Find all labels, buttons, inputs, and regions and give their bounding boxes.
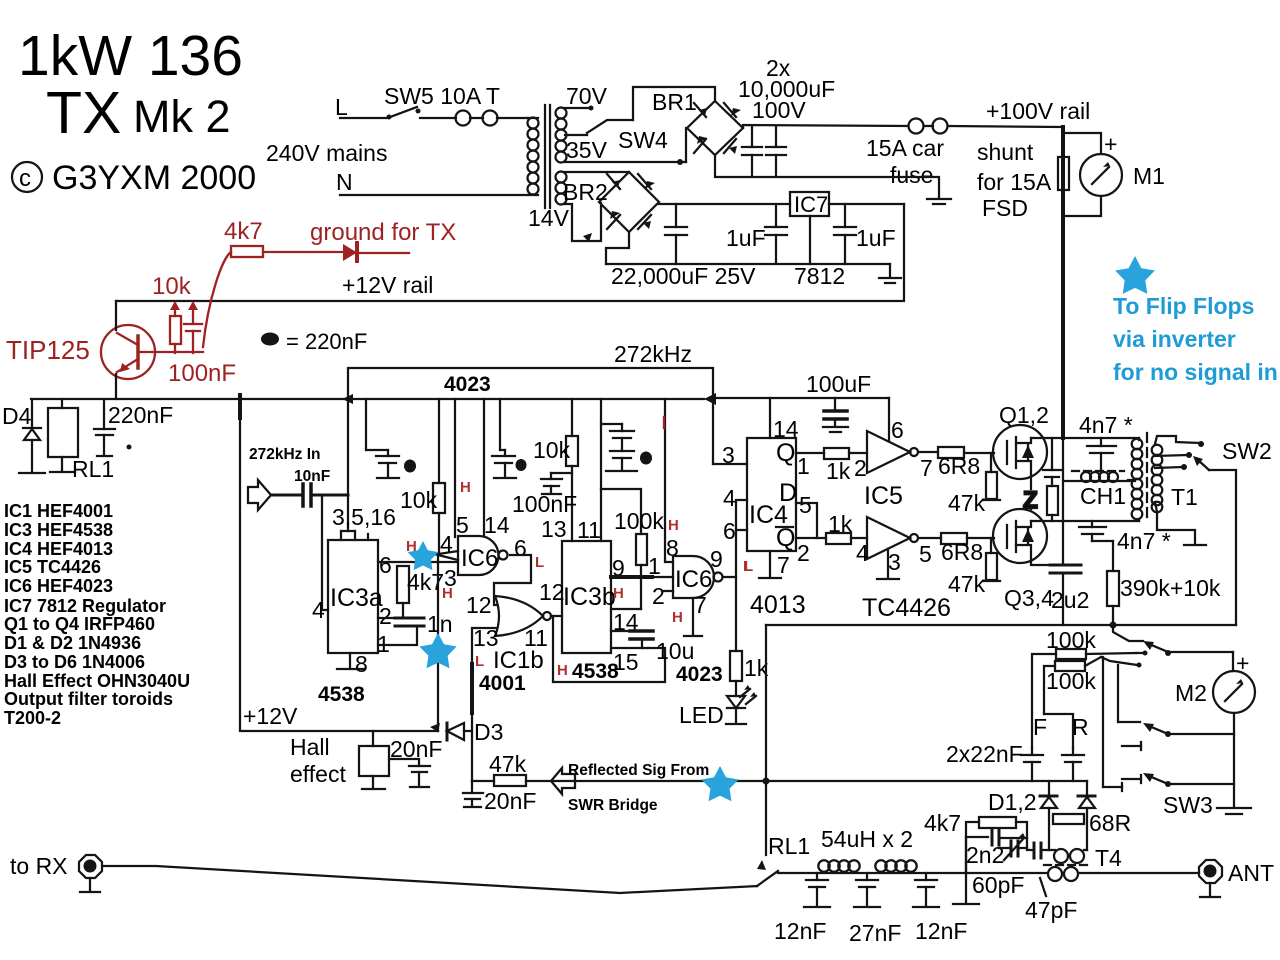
star cyan 1 [408,541,439,570]
svg-text:7812: 7812 [794,263,845,289]
red tick on pin8 line [663,417,665,428]
svg-text:3: 3 [722,442,735,468]
thick junction mark on bus [238,395,242,418]
IC4 top rail [715,397,889,399]
wire 6R8 to Q1 gate [964,452,994,454]
svg-text:5: 5 [799,492,812,518]
wire hall to 20nF [389,759,419,766]
svg-text:100uF: 100uF [806,371,871,397]
svg-text:H: H [460,479,471,496]
svg-text:+100V rail: +100V rail [986,98,1090,124]
wire IC3a pin6 to IC6 input [378,561,458,563]
svg-text:1: 1 [797,453,810,479]
svg-text:IC6: IC6 [461,545,498,572]
wire pin2 into IC6b [662,590,673,592]
switch SW3 bank1 [1101,625,1233,668]
svg-text:100V: 100V [752,97,806,123]
wire IC3b pin9 to IC6b (thick) [611,575,652,579]
svg-text:Q3,4: Q3,4 [1004,585,1054,611]
shunt resistor [1058,157,1069,190]
capacitor 10nF series [271,484,348,506]
wire IC3a pin1 to 1n [378,628,417,645]
svg-text:2: 2 [379,603,392,629]
svg-text:47k: 47k [948,571,986,597]
svg-text:L: L [744,558,753,575]
svg-text:1n: 1n [427,611,453,637]
bus left arrowhead [342,394,353,404]
svg-text:12: 12 [539,579,565,605]
wire 4k7 to red diode [263,251,343,253]
arrow tick on 14V return [583,233,592,242]
HV line between rails [1062,438,1064,521]
svg-text:SWR Bridge: SWR Bridge [568,797,658,814]
rx line [103,866,757,893]
wire IC1b output to IC3b pin12 [551,615,562,617]
svg-text:5: 5 [919,541,932,567]
svg-text:2: 2 [652,583,665,609]
connector ANT [1199,860,1222,897]
svg-text:+12V: +12V [243,703,298,729]
R column [1044,714,1073,748]
svg-text:5: 5 [456,512,469,538]
bus drop IC6b pin8 [665,399,673,562]
diode D1 [1040,781,1057,850]
resistor 10k osc2 [566,399,578,541]
meter M1 branch [1063,133,1122,216]
decoupling cap cluster B [492,399,516,478]
resistor 4k7 red [231,246,263,257]
transformer T1 core dashed [1146,433,1148,523]
wire Qbar out to 1k2 [796,537,826,539]
diode D3 [430,723,472,740]
wire N to transformer [340,194,527,196]
svg-text:fuse: fuse [890,162,933,188]
regulator IC7 box [790,192,829,216]
svg-text:Hall: Hall [290,734,330,760]
wire IC6b output up to IC4 pins 4,6 and down to 1k [723,500,747,577]
wire IC1b output loop down to pin15 [553,616,665,682]
wire junction down to D3 [437,555,439,731]
switch SW5 [387,107,457,120]
svg-text:272kHz In: 272kHz In [249,446,321,463]
svg-text:2n2: 2n2 [966,842,1004,868]
relay coil RL1 box [48,399,78,471]
svg-text:10k: 10k [400,487,438,513]
wire inverter1 out [918,451,938,453]
svg-text:+12V rail: +12V rail [342,272,433,298]
wire 35V bottom to BR1 left [565,161,686,163]
svg-text:100k: 100k [614,508,664,534]
wire pin13 column to 47k [471,713,473,781]
resistor 6R8 bottom [941,533,967,544]
svg-text:T4: T4 [1095,845,1122,871]
svg-text:12nF: 12nF [774,918,826,944]
hall sensor box [359,731,389,789]
svg-text:M2: M2 [1175,680,1207,706]
CH1 to T1 tap [1128,479,1134,481]
capacitor 47pF [1027,843,1048,896]
LED [727,681,756,723]
svg-text:effect: effect [290,761,346,787]
svg-text:D4: D4 [2,403,32,429]
svg-text:M1: M1 [1133,163,1165,189]
resistor 10k osc1 [433,399,445,555]
wire IC3a pin8 ground [337,653,364,669]
svg-text:T200-2: T200-2 [4,708,61,728]
capacitor 2u2 [1050,521,1081,625]
capacitor 2n2 [966,830,1027,873]
wire L to SW5 [340,117,388,119]
svg-text:D3 to D6 1N4006: D3 to D6 1N4006 [4,652,145,672]
svg-text:220nF: 220nF [108,402,173,428]
mosfet Q1,2 [993,425,1047,479]
svg-text:100k: 100k [1046,668,1096,694]
svg-text:54uH x 2: 54uH x 2 [821,826,913,852]
wire IC6a output S-path to IC1b [494,555,531,605]
T1 secondary tap top [1155,436,1204,447]
svg-text:47k: 47k [948,490,986,516]
svg-text:Mk 2: Mk 2 [133,91,231,142]
resistor 47k swr [472,775,766,786]
gate IC6 b [673,556,723,598]
IC3a box [328,531,378,653]
switch SW2 arm [1193,456,1236,625]
svg-text:2u2: 2u2 [1051,587,1089,613]
capacitor 4n7 bottom [1079,521,1113,541]
transformer T1 secondary [1152,445,1163,513]
svg-text:4: 4 [440,531,453,557]
svg-text:15A car: 15A car [866,135,944,161]
svg-text:2x22nF: 2x22nF [946,741,1023,767]
capacitor 22nF F [1021,748,1043,781]
wire +100V top rail [743,125,908,128]
capacitor 20nF hall [409,766,430,787]
resistor 68R [1053,814,1084,824]
transformer T4 [1044,849,1092,881]
svg-text:for no signal in: for no signal in [1113,359,1278,385]
resistor 1k LED [730,651,742,681]
star cyan 3 [701,766,738,801]
svg-text:ANT: ANT [1228,860,1274,886]
svg-text:To Flip Flops: To Flip Flops [1113,293,1254,319]
svg-text:CH1: CH1 [1080,483,1126,509]
transformer TR secondary 70V/35V winding [556,108,567,163]
wire TIP125 collector to +12V rail [115,301,117,330]
capacitor 27nF [854,873,880,907]
capacitor 10u [611,631,653,648]
svg-text:IC3 HEF4538: IC3 HEF4538 [4,520,113,540]
mosfet Q3,4 [993,509,1050,565]
connector to RX [79,855,102,892]
diode D2 [1078,781,1095,850]
drain rail bottom [1031,520,1139,522]
resistor 6R8 top [938,447,964,458]
svg-text:12: 12 [466,592,492,618]
wire 1k to inverter1 [849,452,867,454]
svg-text:SW4: SW4 [618,127,668,153]
svg-text:TIP125: TIP125 [6,335,90,365]
svg-text:RL1: RL1 [768,833,810,859]
svg-text:R: R [1072,714,1089,740]
svg-text:6R8: 6R8 [941,539,983,565]
capacitor 4n7 top [1087,438,1116,471]
legend dot = 220nF [261,333,279,346]
svg-text:IC3b: IC3b [563,583,616,611]
svg-text:3,5,16: 3,5,16 [332,504,396,530]
svg-text:H: H [557,662,568,679]
svg-text:27nF: 27nF [849,920,901,946]
bridge rectifier BR2 [599,172,659,232]
svg-text:Q1,2: Q1,2 [999,402,1049,428]
svg-text:4k7: 4k7 [924,810,961,836]
svg-text:9: 9 [710,546,723,572]
IC4 box [747,438,796,551]
svg-text:68R: 68R [1089,810,1131,836]
wire 35V tap [565,134,587,136]
svg-text:1uF: 1uF [726,225,766,251]
wire IC3a pin2 [378,617,403,619]
272kHz feedback line [348,368,713,464]
svg-text:for 15A: for 15A [977,169,1052,195]
svg-text:BR2: BR2 [563,179,608,205]
svg-text:Output filter toroids: Output filter toroids [4,689,173,709]
svg-text:1uF: 1uF [856,225,896,251]
parts list text [4,501,190,728]
transistor TIP125 [101,325,155,379]
HV feed line thick [1061,127,1065,438]
svg-text:14: 14 [484,512,510,538]
dot 220nF cluster C [640,452,652,465]
svg-text:47pF: 47pF [1025,897,1077,923]
svg-text:4n7 *: 4n7 * [1079,412,1133,438]
svg-text:10u: 10u [656,638,694,664]
bottom return rail y625 [766,624,1236,626]
wire BR1 left vertex down [685,128,687,162]
wire Q out to 1k [796,452,824,454]
svg-text:100nF: 100nF [168,360,236,387]
svg-text:390k+10k: 390k+10k [1120,575,1221,601]
svg-text:D3: D3 [474,719,503,745]
psu ground rail [606,263,890,265]
inductor 54uH b [875,860,916,871]
decoupling cap cluster A [366,399,399,478]
capacitor 220nF relay [94,399,115,456]
zener Z between mosfets [1023,476,1038,514]
svg-text:Hall Effect OHN3040U: Hall Effect OHN3040U [4,671,190,691]
svg-text:TX: TX [46,80,121,146]
bridge rectifier BR1 [687,101,743,155]
wire IC6b pin7 ground [684,598,702,636]
resistor 4k7 osc [397,566,409,618]
svg-text:T1: T1 [1171,484,1198,510]
ground D4 [19,472,45,474]
svg-text:L: L [535,554,544,571]
svg-text:Q: Q [776,524,795,552]
M2 bus vertical [1232,652,1234,671]
svg-text:IC4 HEF4013: IC4 HEF4013 [4,539,113,559]
wire BR2 bottom to psu ground rail [606,232,629,264]
dot 220nF cluster B [516,459,527,471]
wire 70V tap [565,106,594,111]
svg-text:IC7 7812 Regulator: IC7 7812 Regulator [4,596,166,616]
wire IC1b pin13 column [472,628,497,664]
svg-text:4538: 4538 [318,683,365,706]
svg-text:4023: 4023 [676,663,723,686]
svg-text:shunt: shunt [977,139,1034,165]
svg-text:IC1 HEF4001: IC1 HEF4001 [4,501,113,521]
svg-text:D1,2: D1,2 [988,789,1037,815]
svg-text:240V mains: 240V mains [266,140,387,166]
resistor 100k osc [636,534,647,609]
ground LED [726,723,746,725]
svg-text:IC7: IC7 [794,192,828,217]
svg-text:4k7: 4k7 [224,218,263,245]
meter M2 [1213,671,1255,713]
capacitor 12nF b [913,873,939,907]
svg-text:c: c [19,165,31,192]
svg-text:RL1: RL1 [72,456,114,482]
junction dot rail [1110,622,1117,629]
svg-text:4001: 4001 [479,672,526,695]
capacitor 1uF output [834,204,856,264]
svg-text:13: 13 [541,516,567,542]
wire 14V top to BR2 [565,171,629,173]
switch SW4 arm [587,120,633,133]
choke CH1 [1064,471,1135,482]
wire 1k2 to inverter2 [851,537,867,539]
svg-text:4538: 4538 [572,660,619,683]
svg-text:H: H [613,585,624,602]
wire cluster C branch to 100k [601,489,641,534]
svg-text:47k: 47k [489,751,527,777]
svg-text:60pF: 60pF [972,872,1024,898]
svg-text:Q1 to Q4 IRFP460: Q1 to Q4 IRFP460 [4,614,155,634]
svg-text:10k: 10k [533,437,571,463]
bus drop pin14 [483,399,485,536]
wire inverter2 ground [877,549,899,579]
inductor 54uH a [818,860,859,871]
wire IC7 ground pin [809,216,811,264]
capacitor 10000uF b [766,126,786,177]
capacitor 100uF [823,398,848,432]
svg-text:to RX: to RX [10,853,68,879]
svg-text:L: L [335,94,348,120]
star cyan 2 [419,633,456,668]
svg-text:ground for TX: ground for TX [310,219,456,246]
resistor 100k b [1044,657,1101,714]
svg-text:8: 8 [355,651,368,677]
svg-text:4: 4 [856,540,869,566]
ground M2 [1217,808,1251,814]
capacitor 22nF R [1062,748,1084,781]
T1 secondary tap mid [1155,452,1192,458]
svg-text:70V: 70V [566,83,608,109]
svg-text:+: + [1236,650,1249,676]
svg-text:D: D [779,479,797,507]
junction dot reflected/RL1 [763,778,770,785]
ground after fuse [927,199,951,204]
svg-text:10k: 10k [152,273,192,300]
gate IC1b (NOR) [495,596,551,636]
svg-text:11: 11 [577,517,601,543]
svg-text:TC4426: TC4426 [862,594,951,622]
svg-text:IC6 HEF4023: IC6 HEF4023 [4,576,113,596]
wire IC4 pin3 [713,463,747,465]
svg-text:4013: 4013 [750,591,806,619]
svg-text:Q: Q [776,439,795,467]
svg-text:1k: 1k [826,458,851,484]
svg-text:IC5: IC5 [864,482,903,510]
wire red base node to TIP125 [140,351,203,353]
wire +12V branch to hall and D3 [240,418,438,731]
F column to cap [1031,712,1033,748]
capacitor 100nF red [184,301,202,353]
input arrow 272kHz [248,480,271,510]
svg-text:BR1: BR1 [652,89,697,115]
ground stub filter [953,873,979,904]
wire IC3b pin2 row [611,608,641,610]
svg-text:1: 1 [648,553,661,579]
wire 7812 output to +12V rail [116,204,904,301]
svg-text:L: L [475,653,484,670]
T1 secondary tap low [1155,464,1187,470]
wire input node to pins 3,5,16 [347,399,349,531]
resistor 390k+10k [1107,541,1119,625]
reflected line right portion [766,780,1087,782]
decoupling cap cluster C [601,399,637,541]
wire IC7 output [829,203,904,205]
ground RL1 [50,471,75,473]
snubber cap+res [1043,438,1061,521]
svg-text:4n7 *: 4n7 * [1117,528,1171,554]
svg-text:via inverter: via inverter [1113,326,1236,352]
wire IC4 pin14 [769,398,771,438]
capacitor 22000uF [665,204,687,264]
svg-text:14V: 14V [528,205,570,231]
transformer TR primary winding [528,118,539,196]
SW3 feed columns [1102,657,1104,787]
svg-text:G3YXM 2000: G3YXM 2000 [52,159,256,197]
wire 14V bottom to BR2 [565,203,601,241]
svg-text:20nF: 20nF [484,788,536,814]
wire 4k7 left lead down to base node [203,252,231,347]
svg-text:6R8: 6R8 [938,453,980,479]
transformer TR core [545,105,550,208]
svg-text:20nF: 20nF [390,736,442,762]
inverter IC5 top [867,398,918,473]
main +12V logic bus y399 [31,398,704,400]
resistor 47k gate1 [983,453,1000,500]
svg-text:1kW 136: 1kW 136 [18,24,243,88]
ground psu rail end [879,264,901,283]
transformer T1 primary [1132,438,1143,521]
T1 secondary bottom to ground [1155,502,1206,545]
svg-text:22,000uF 25V: 22,000uF 25V [611,263,756,289]
svg-text:H: H [668,517,679,534]
svg-text:100nF: 100nF [512,491,577,517]
wire pin13 column thick [470,664,474,713]
arrow reflected sig [551,768,575,794]
svg-text:+: + [1104,131,1117,157]
svg-text:4: 4 [312,597,325,623]
resistor 47k gate2 [983,538,1000,581]
svg-text:SW2: SW2 [1222,438,1272,464]
drain rail top [1031,437,1139,439]
svg-text:12nF: 12nF [915,918,967,944]
diode D4 [23,399,41,472]
svg-text:6: 6 [891,417,904,443]
svg-text:IC5 TC4426: IC5 TC4426 [4,557,101,577]
